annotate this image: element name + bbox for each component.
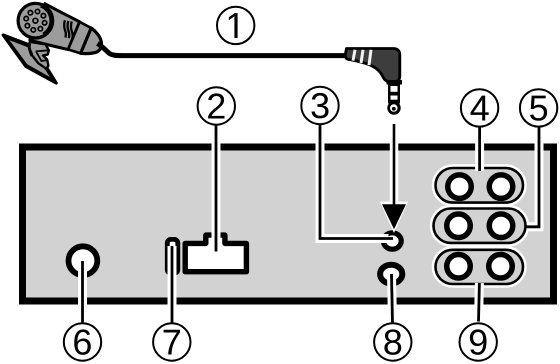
callout 5 xyxy=(520,89,557,126)
plug shaft and tip xyxy=(387,80,403,115)
insertion arrow into jack 3 xyxy=(380,124,408,233)
fuse holder 7 xyxy=(167,239,178,273)
leader line 6 xyxy=(78,261,87,324)
leader line 9 xyxy=(474,283,484,322)
vent slits xyxy=(64,20,72,38)
microphone clip bracket xyxy=(29,42,49,69)
RCA pair row 4 (top stadium) xyxy=(436,168,524,203)
callout 9 xyxy=(460,323,497,360)
wiring-harness connector 2 xyxy=(185,235,246,272)
microphone body xyxy=(30,4,108,67)
microphone cable xyxy=(98,44,347,56)
leader line 7 xyxy=(168,246,177,324)
microphone clip plate xyxy=(3,35,56,83)
callout 4 xyxy=(461,89,498,126)
RCA pair row 5 (middle stadium) xyxy=(434,209,526,243)
aux jack 8 xyxy=(380,265,402,284)
microphone face xyxy=(18,3,53,38)
callout 8 xyxy=(374,323,411,360)
callout 7 xyxy=(153,323,190,360)
callout 3 xyxy=(301,87,338,124)
callout 1 xyxy=(217,7,254,44)
callout 2 xyxy=(198,87,235,124)
RCA pair row 9 (bottom stadium) xyxy=(436,250,524,284)
leader line 8 xyxy=(392,274,393,324)
callout 6 xyxy=(64,323,101,360)
leader line 2 xyxy=(212,125,221,252)
leader line 3 xyxy=(320,125,393,239)
mic input jack 3 xyxy=(383,233,401,249)
antenna jack 6 xyxy=(69,246,98,275)
leader line 4 xyxy=(475,127,484,171)
rear panel of head unit xyxy=(23,147,554,301)
3.5mm right-angle plug body xyxy=(345,49,400,82)
leader line 5 xyxy=(526,127,539,227)
